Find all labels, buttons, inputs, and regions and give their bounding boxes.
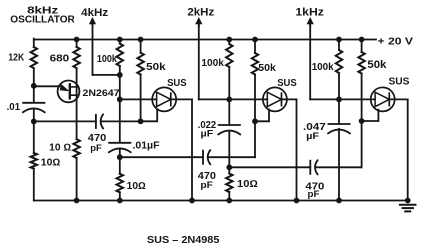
svg-text:pF: pF — [200, 180, 213, 191]
svg-text:µF: µF — [201, 128, 214, 139]
wire 10 ohm to ground stage2 — [119, 192, 121, 200]
wire 4kHz stem — [92, 24, 94, 75]
wire anode lead stage2 — [120, 98, 157, 100]
wire cathode stage3 — [282, 98, 297, 100]
node 100k stage3 top — [226, 37, 232, 43]
label 10ohm base1 — [49, 142, 71, 153]
node anode stage2 — [117, 97, 123, 103]
svg-text:1kHz: 1kHz — [295, 7, 324, 19]
svg-text:50k: 50k — [258, 63, 276, 74]
label 8kHz — [27, 4, 58, 16]
arrow 4kHz output — [89, 17, 96, 26]
wire 100k stub top — [119, 40, 121, 44]
svg-text:OSCILLATOR: OSCILLATOR — [10, 14, 75, 26]
label 680 — [50, 54, 70, 65]
node anode stage4 — [336, 97, 342, 103]
wire base1 to ground rail — [76, 158, 78, 201]
svg-text:SUS: SUS — [167, 78, 187, 89]
wire gate riser stage4 — [361, 121, 363, 167]
wire C7 to ground rail — [338, 129, 340, 201]
svg-text:10Ω: 10Ω — [127, 181, 146, 192]
resistor R8 100k stage3 — [226, 44, 232, 67]
wire gate riser stage3 — [254, 121, 256, 157]
label 50k stage4 — [367, 59, 387, 71]
node stage2 ground — [117, 198, 123, 204]
node 50k stage4 top — [359, 37, 365, 43]
svg-text:4kHz: 4kHz — [81, 7, 109, 19]
wire trigger3 right — [316, 166, 362, 168]
wire trigger1 right — [101, 120, 140, 122]
svg-text:2kHz: 2kHz — [187, 7, 214, 19]
node stage2 output — [117, 154, 123, 160]
resistor R3 10 ohm left — [31, 153, 37, 169]
wire anode to cap C5 — [228, 99, 230, 124]
svg-text:50k: 50k — [146, 62, 166, 73]
svg-text:2N2647: 2N2647 — [83, 88, 120, 99]
wire trigger1 left — [34, 120, 96, 122]
wire gate lead stage4 — [362, 110, 379, 121]
wire 2kHz feed — [199, 98, 230, 100]
resistor R5 100k — [117, 44, 123, 67]
node gate stage4 — [359, 118, 365, 124]
wire 50k stage3 stub — [254, 40, 256, 54]
svg-text:SUS – 2N4985: SUS – 2N4985 — [147, 235, 220, 244]
wire 2kHz stem — [198, 24, 200, 99]
capacitor C2 470pF — [96, 114, 103, 128]
arrow 2kHz output — [195, 17, 202, 26]
wire 100k stage3 stub — [228, 40, 230, 45]
wire 10 ohm to ground stage3 — [228, 192, 230, 201]
label 12K — [8, 52, 24, 64]
wire anode to cap C7 — [338, 99, 340, 123]
svg-text:pF: pF — [308, 189, 320, 200]
node base column ground — [74, 198, 80, 204]
svg-text:.01: .01 — [7, 102, 21, 113]
label SUS stage3 — [277, 78, 297, 89]
node 680 top — [74, 37, 80, 43]
label 4kHz — [81, 7, 109, 19]
wire top +20V supply rail — [34, 39, 376, 41]
wire base2 column — [76, 68, 78, 139]
label 470pF stage2 — [198, 171, 216, 191]
node 4kHz tap — [117, 72, 123, 78]
node emitter junction — [31, 83, 37, 89]
resistor R7 10 ohm stage2 — [117, 174, 123, 193]
node cathode ground stage3 — [294, 198, 300, 204]
label .047uF — [303, 122, 326, 142]
svg-text:SUS: SUS — [277, 78, 297, 89]
capacitor C4 470pF stage2 — [203, 150, 210, 164]
wire cathode drop stage2 — [191, 99, 193, 200]
wire 680 top stub — [76, 40, 78, 48]
wire 50k stub — [140, 40, 142, 53]
wire 100k stage3 bottom — [228, 67, 230, 99]
wire gate lead stage3 — [255, 109, 269, 121]
label 100k stage4 — [312, 62, 334, 73]
svg-text:10 Ω: 10 Ω — [49, 142, 71, 153]
wire emitter node to cap C1 — [33, 86, 35, 103]
label 10ohm stage2 — [127, 181, 146, 192]
wire C3 to output node — [119, 149, 121, 158]
svg-text:680: 680 — [50, 54, 70, 65]
wire 50k stage4 stub — [361, 40, 363, 53]
svg-text:100k: 100k — [97, 54, 117, 65]
label 470pF stage3 — [305, 181, 324, 200]
resistor R11 100k stage4 — [336, 50, 342, 73]
node 50k stage2 top — [138, 37, 144, 43]
resistor R2 680 — [73, 47, 79, 68]
label 10ohm left — [41, 157, 61, 168]
wire gate lead stage2 — [141, 109, 158, 121]
wire anode lead stage3 — [229, 98, 267, 100]
wire trigger2 left — [120, 156, 203, 158]
svg-text:100k: 100k — [201, 58, 224, 69]
wire down to 10 ohm stage2 — [119, 157, 121, 174]
node ground junction — [405, 198, 411, 204]
node anode stage3 — [226, 97, 232, 103]
transistor Q1 2N2647 — [58, 81, 80, 103]
resistor R12 50k stage4 — [358, 52, 364, 74]
wire to anode node — [119, 75, 121, 100]
wire 12K top stub — [33, 39, 35, 47]
node stage4 cap ground — [336, 198, 342, 204]
wire cathode drop stage4 — [407, 99, 409, 200]
svg-text:12K: 12K — [8, 52, 24, 64]
thyristor U1 SUS — [152, 87, 176, 111]
label .01uF stage2 — [133, 140, 160, 151]
wire 10 ohm to ground rail — [33, 169, 35, 201]
svg-text:50k: 50k — [367, 59, 387, 71]
svg-text:.01µF: .01µF — [133, 140, 160, 151]
node 100k stage4 top — [336, 37, 342, 43]
node 50k stage3 top — [252, 37, 258, 43]
svg-text:µF: µF — [306, 131, 319, 142]
resistor R9 50k stage3 — [252, 53, 258, 75]
wire 50k bottom to gate node — [140, 75, 142, 122]
wire C1 to trigger node — [33, 109, 35, 121]
wire 100k stage4 stub — [338, 40, 340, 51]
wire emitter lead — [34, 85, 60, 87]
label 50k stage2 — [146, 62, 166, 73]
node cathode ground stage2 — [189, 198, 195, 204]
svg-text:10Ω: 10Ω — [41, 157, 61, 168]
ground — [400, 205, 416, 212]
wire 4kHz feed — [93, 74, 120, 76]
svg-text:10Ω: 10Ω — [237, 179, 258, 190]
label 50k stage3 — [258, 63, 276, 74]
capacitor C7 .047uF — [328, 124, 350, 133]
label 100k stage2 — [97, 54, 117, 65]
thyristor U2 SUS — [263, 87, 287, 111]
node oscillator output — [31, 119, 37, 125]
label 1kHz — [295, 7, 324, 19]
capacitor C5 .022uF — [218, 125, 240, 134]
node gate stage2 — [138, 118, 144, 124]
capacitor C6 470pF stage3 — [310, 160, 317, 174]
label +20V — [378, 36, 414, 47]
label 470pF stage1 — [88, 133, 107, 154]
label .01 — [7, 102, 21, 113]
wire down to 10 ohm stage3 — [228, 167, 230, 173]
resistor R1 12K — [31, 47, 37, 68]
label SUS stage4 — [389, 77, 410, 88]
node stage3 ground — [226, 198, 232, 204]
node stage3 output — [226, 164, 232, 170]
capacitor C1 .01 — [23, 103, 45, 112]
label 10ohm stage3 — [237, 179, 258, 190]
resistor R6 50k — [137, 53, 143, 75]
resistor R10 10 ohm stage3 — [226, 174, 232, 193]
wire cathode drop stage3 — [296, 99, 298, 200]
label OSCILLATOR — [10, 14, 75, 26]
label .022uF — [198, 120, 217, 139]
wire 50k stage4 bottom — [361, 74, 363, 122]
wire anode to cap C3 — [119, 99, 121, 142]
svg-text:pF: pF — [90, 143, 102, 154]
wire 1kHz feed — [310, 98, 339, 100]
label 2N2647 — [83, 88, 120, 99]
wire bottom ground rail — [34, 200, 408, 202]
wire C5 to output node — [228, 131, 230, 167]
wire trigger2 right — [208, 156, 255, 158]
wire 100k stage4 bottom — [338, 73, 340, 99]
capacitor C3 .01uF — [109, 143, 131, 152]
wire cathode stage4 — [389, 98, 407, 100]
wire trigger3 left — [229, 166, 310, 168]
wire 12K bottom to emitter node — [33, 68, 35, 86]
wire 1kHz stem — [309, 24, 311, 99]
svg-text:SUS: SUS — [389, 77, 410, 88]
wire anode lead stage4 — [339, 98, 375, 100]
node 100k stage2 top — [117, 37, 123, 43]
thyristor U3 SUS — [371, 87, 395, 111]
arrow 1kHz output — [307, 17, 314, 26]
svg-text:100k: 100k — [312, 62, 334, 73]
wire down to 10 ohm — [33, 121, 35, 153]
svg-text:+ 20 V: + 20 V — [378, 36, 414, 47]
wire 100k bottom — [119, 66, 121, 75]
wire cathode stage2 — [171, 98, 192, 100]
wire 50k stage3 bottom — [254, 75, 256, 122]
label SUS stage2 — [167, 78, 187, 89]
resistor R4 10 ohm base1 — [73, 139, 79, 158]
label 100k stage3 — [201, 58, 224, 69]
label caption SUS-2N4985 — [147, 235, 220, 246]
label 2kHz — [187, 7, 214, 19]
node gate stage3 — [252, 118, 258, 124]
